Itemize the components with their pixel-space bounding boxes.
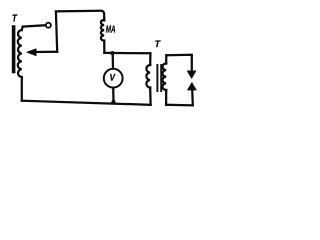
svg-text:MA: MA bbox=[106, 25, 116, 36]
svg-text:T: T bbox=[12, 13, 18, 24]
svg-text:V: V bbox=[110, 73, 116, 83]
svg-text:T: T bbox=[155, 39, 162, 50]
